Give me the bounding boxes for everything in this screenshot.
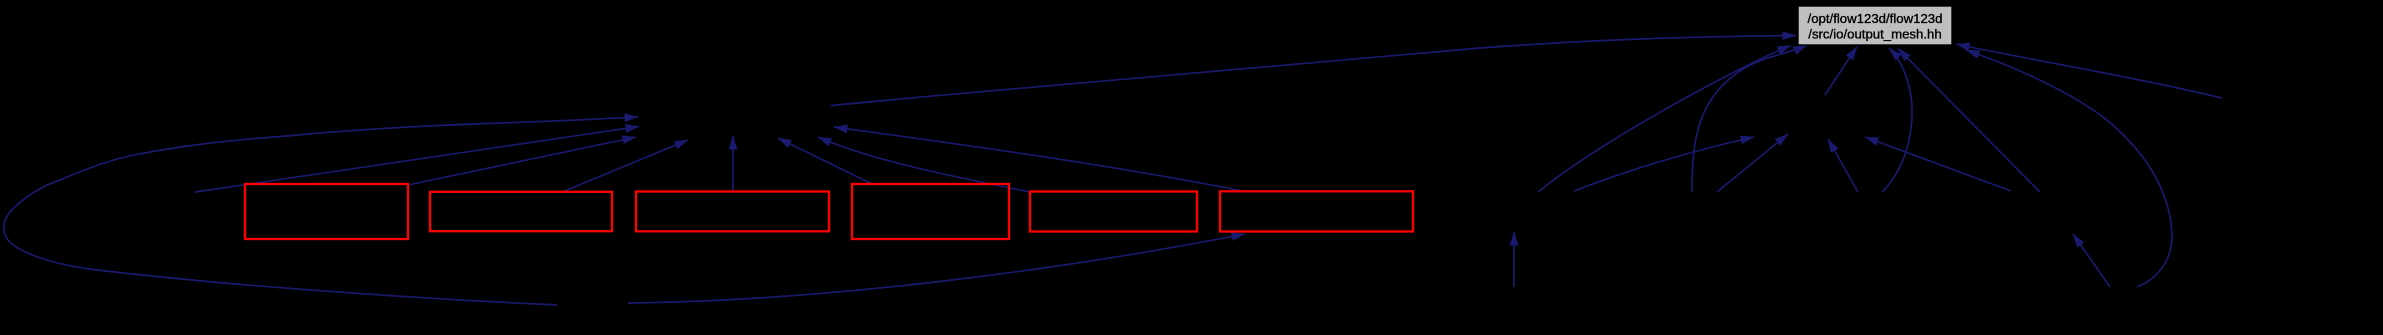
- edge NL -> T1: [195, 127, 639, 193]
- edge BN1 -> R6 (long bottom line): [628, 234, 1245, 303]
- edge BN3 -> gray node (right bulge curve): [1966, 50, 2172, 287]
- edge R11b -> gray node: [1898, 49, 2040, 193]
- edge M3 -> gray node: [1956, 44, 2222, 98]
- node R5 (red box): [1030, 192, 1197, 232]
- edge M1 -> gray node: [1825, 47, 1857, 96]
- edge R8b -> gray node (inner C curve): [1692, 45, 1807, 192]
- edge R9 -> M1 bottom: [1717, 134, 1788, 192]
- svg-text:/src/io/output_mesh.hh: /src/io/output_mesh.hh: [1808, 26, 1941, 41]
- edge BN1 -> T1 (big left ellipse sweep): [4, 117, 638, 305]
- edge R8 -> M1 left: [1574, 137, 1754, 191]
- node R2 (red box): [430, 192, 612, 231]
- edge R1 -> T1: [408, 137, 636, 185]
- edge V -> M1 (left branch): [1828, 139, 1858, 192]
- edge R4 -> T1: [778, 138, 872, 184]
- node output_mesh.hh (gray current node): [1798, 6, 1952, 45]
- edge V -> gray node (right arc): [1882, 48, 1912, 192]
- edge R3 -> T1: [732, 136, 734, 192]
- edge R6 -> T1: [834, 127, 1243, 191]
- node R1 (red box, 2-line): [245, 184, 408, 239]
- edge T1 -> gray node (long top line): [831, 36, 1796, 106]
- edge R7 -> gray node: [1538, 46, 1791, 193]
- edge R11a -> M1 right: [1865, 137, 2011, 191]
- node R4 (red box, 2-line): [852, 184, 1009, 239]
- edge R2 -> T1: [562, 140, 688, 192]
- node R6 (red box): [1220, 191, 1413, 231]
- node R3 (red box): [636, 192, 829, 232]
- svg-text:/opt/flow123d/flow123d: /opt/flow123d/flow123d: [1808, 11, 1943, 26]
- edge BN3 -> R11: [2073, 234, 2110, 287]
- edge BN2 -> R7 (short vertical arrow): [1513, 232, 1515, 287]
- edge R5 -> T1: [818, 137, 1030, 192]
